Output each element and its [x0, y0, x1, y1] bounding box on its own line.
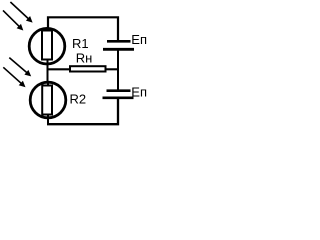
light arrow 3 to R2	[9, 58, 31, 77]
wire: top rail from R1 top to right rail	[48, 17, 118, 40]
wire: between R1 and R2	[47, 63, 49, 83]
svg-text:R1: R1	[72, 36, 89, 51]
resistor Rн	[70, 66, 106, 71]
light arrow 2 to R1	[3, 10, 23, 30]
svg-text:Rн: Rн	[76, 51, 93, 66]
svg-text:Еп: Еп	[131, 84, 147, 99]
wire: right rail between battery E1 and battery E2 (through Rн junction)	[117, 50, 119, 90]
photoresistor R2	[30, 82, 66, 118]
light arrow 1 to R1	[10, 2, 32, 23]
svg-text:R2: R2	[70, 92, 87, 107]
wire: R2 bottom to bottom rail	[47, 117, 49, 125]
light arrow 4 to R2	[3, 67, 25, 87]
svg-text:Еп: Еп	[131, 32, 147, 47]
photoresistor R1	[29, 28, 65, 64]
wire: middle branch from junction to Rн	[47, 68, 71, 70]
wire: bottom rail to right rail	[47, 99, 118, 124]
wire: Rн to right rail	[105, 68, 119, 70]
battery E2 (Еп), bottom: short plate over long plate	[103, 91, 134, 98]
battery E1 (Еп), top: short plate over long plate	[103, 41, 134, 49]
